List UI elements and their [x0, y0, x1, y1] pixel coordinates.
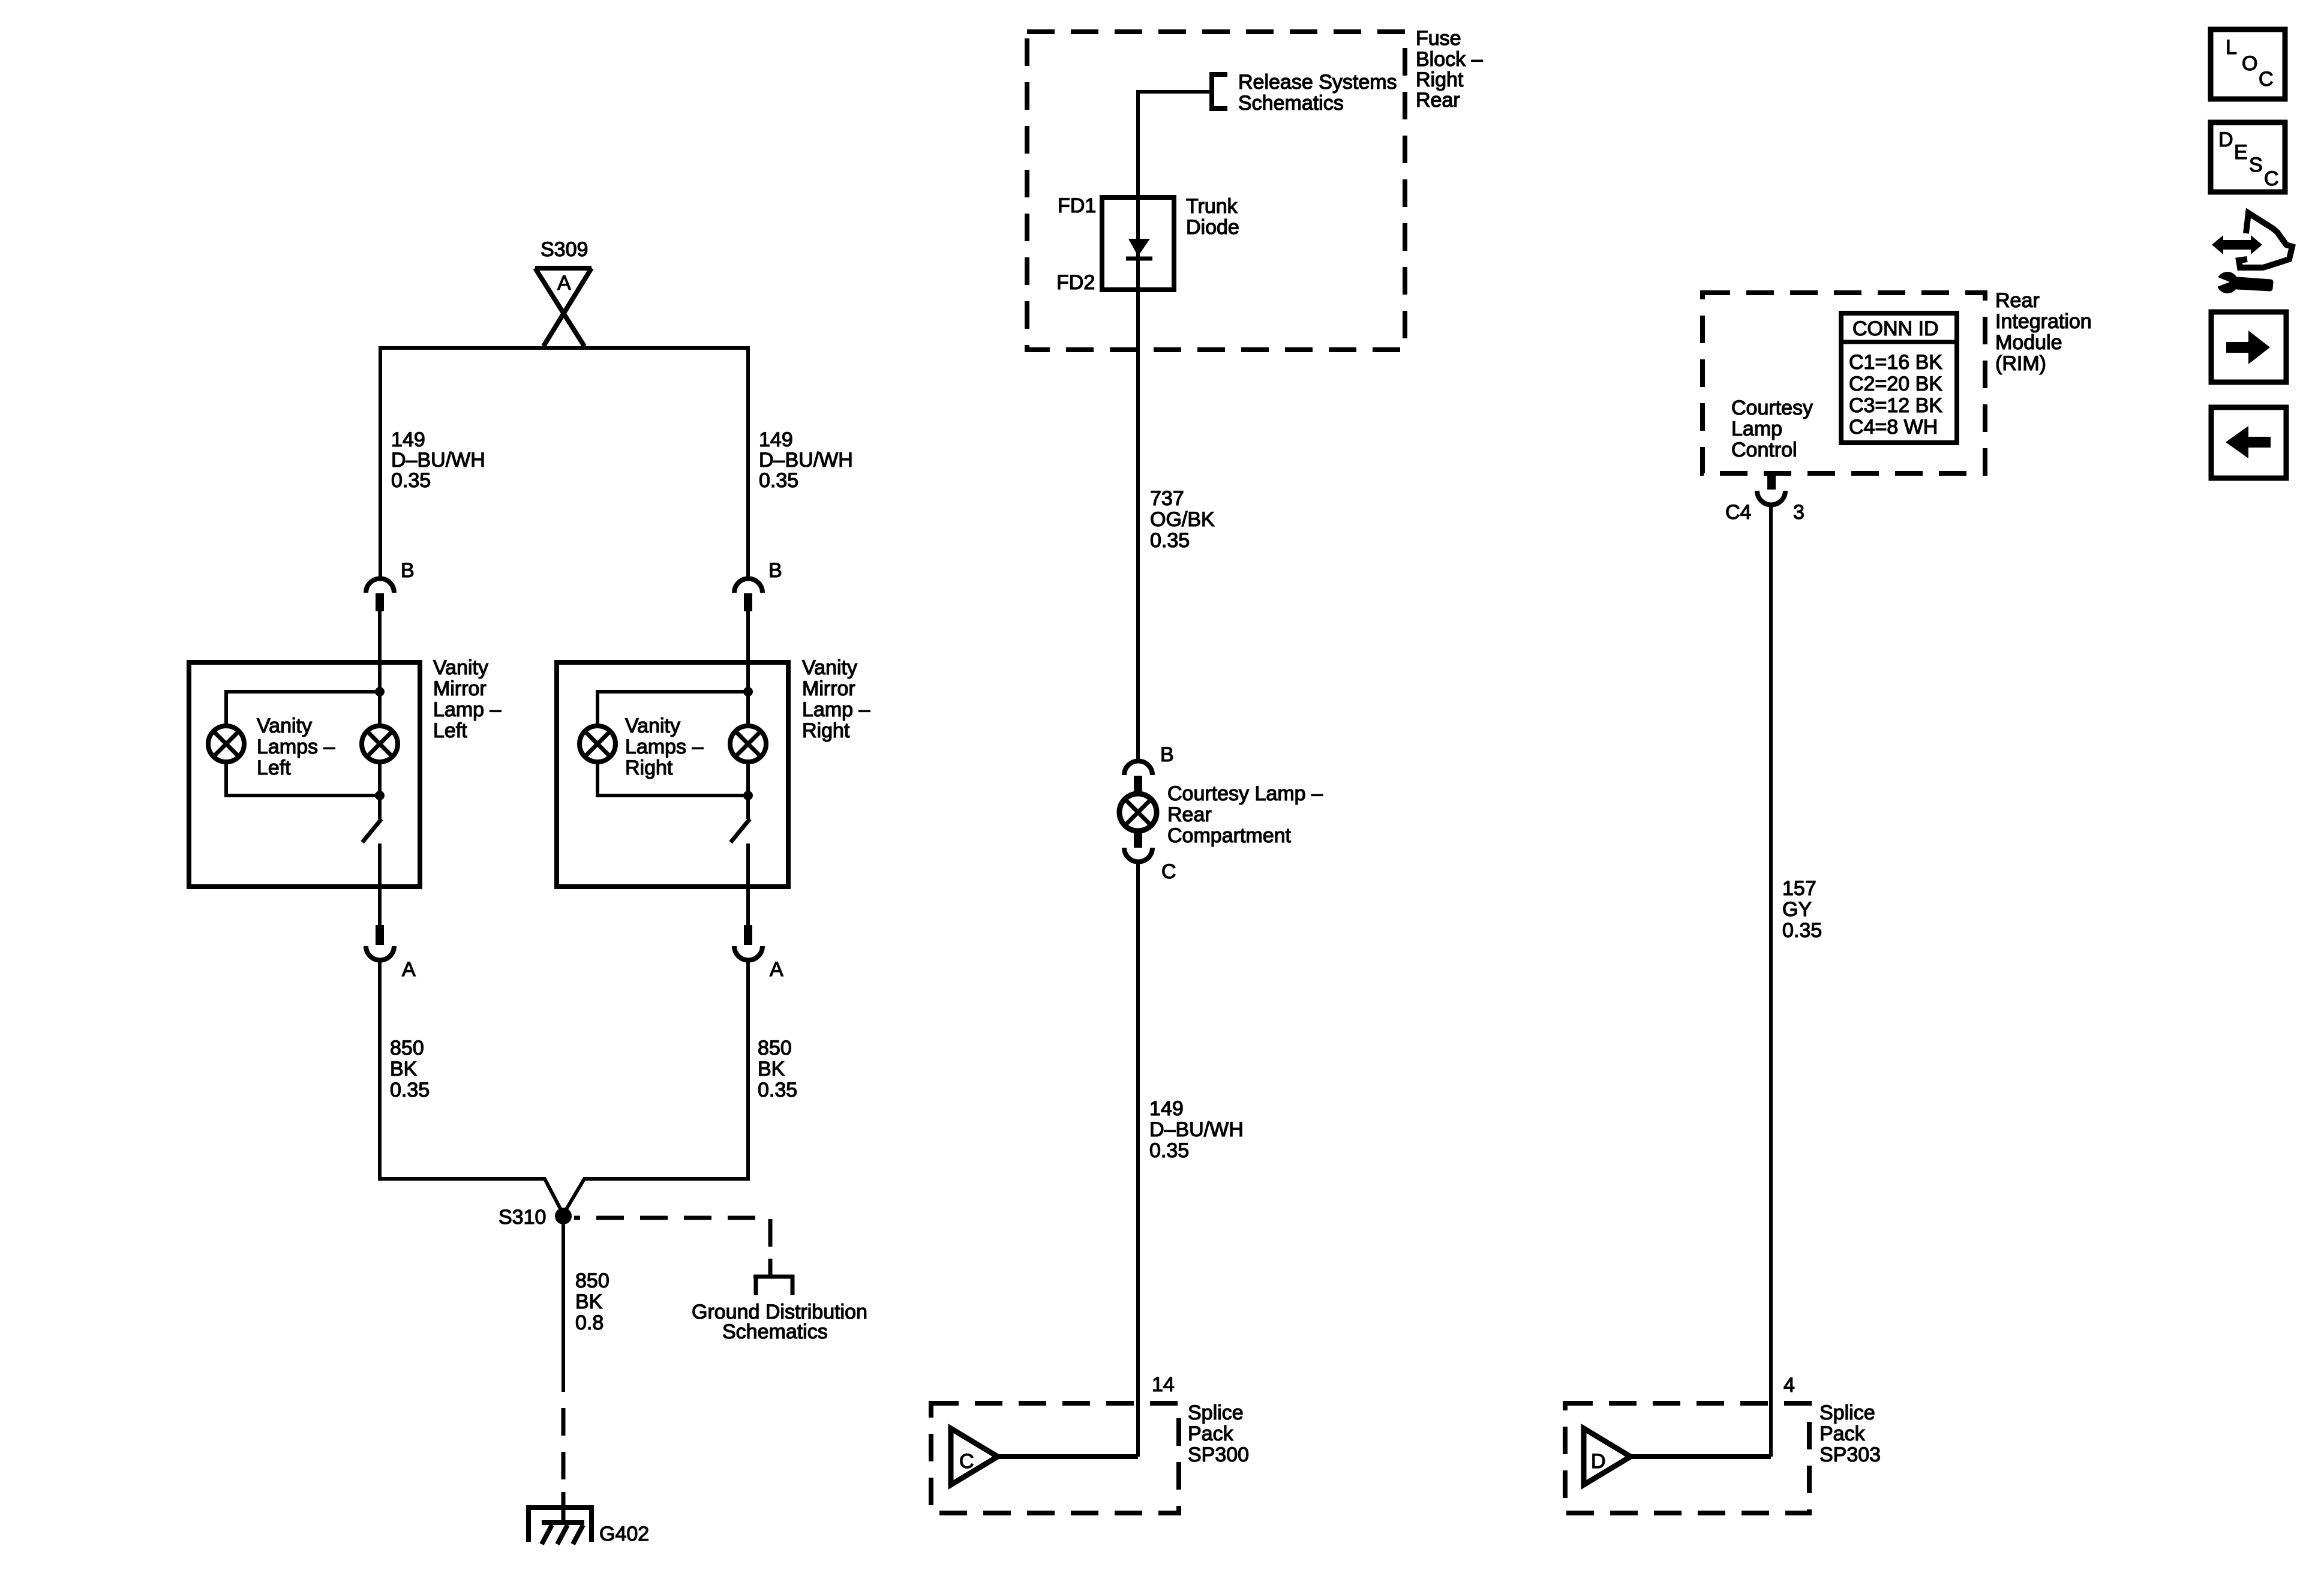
svg-text:Splice: Splice: [1819, 1401, 1875, 1424]
LOC icon letters: [2226, 36, 2274, 91]
svg-text:A: A: [557, 272, 571, 295]
label Ground Distribution Schematics: [692, 1301, 867, 1343]
wire: [226, 762, 380, 795]
svg-text:Lamps –: Lamps –: [625, 736, 703, 758]
inline connector A (right): [734, 925, 762, 960]
svg-text:Rear: Rear: [1416, 89, 1460, 112]
switch (right vanity): [731, 795, 750, 925]
svg-text:D–BU/WH: D–BU/WH: [759, 449, 853, 472]
svg-text:GY: GY: [1782, 898, 1812, 921]
wire from trunk diode down to courtesy lamp: [1136, 290, 1140, 761]
label Vanity Lamps Right: [625, 715, 703, 779]
svg-text:0.35: 0.35: [759, 469, 798, 492]
wire label 850 BK 0.35 (right): [758, 1037, 797, 1101]
lamp Vanity Lamps Right (bulb 1): [580, 726, 615, 762]
svg-text:Rear: Rear: [1167, 803, 1212, 826]
wire from release systems bracket to trunk diode: [1138, 92, 1209, 197]
label Fuse Block Right Rear: [1416, 27, 1483, 112]
label Vanity Mirror Lamp Left: [433, 656, 501, 742]
svg-text:C: C: [2264, 167, 2279, 190]
label Trunk Diode: [1186, 195, 1239, 239]
svg-text:Vanity: Vanity: [257, 715, 312, 737]
svg-text:OG/BK: OG/BK: [1150, 508, 1215, 531]
wire left branch down to S310: [380, 960, 563, 1214]
svg-text:Rear: Rear: [1995, 289, 2040, 312]
svg-text:Courtesy: Courtesy: [1731, 397, 1813, 419]
svg-text:C: C: [2259, 68, 2274, 91]
svg-text:E: E: [2234, 141, 2248, 164]
svg-text:149: 149: [391, 428, 425, 451]
wire label 149 D-BU/WH 0.35 (right): [759, 428, 853, 492]
wire to left lamp of right box: [597, 692, 748, 726]
svg-text:Lamp –: Lamp –: [433, 698, 501, 721]
svg-text:4: 4: [1783, 1374, 1795, 1397]
diode symbol: [1126, 239, 1152, 259]
forward arrow: [2226, 331, 2270, 364]
svg-text:B: B: [401, 559, 415, 582]
CONN ID table: [1841, 313, 1957, 443]
DESC icon box: [2211, 122, 2285, 192]
wire label 157 GY 0.35: [1782, 877, 1822, 942]
svg-text:Splice: Splice: [1188, 1401, 1244, 1424]
svg-text:Lamp –: Lamp –: [802, 698, 870, 721]
lamp Vanity Lamps Left (bulb 2): [362, 726, 398, 762]
dashed wire from S310 to ground distribution reference: [574, 1218, 770, 1259]
svg-text:3: 3: [1793, 501, 1804, 524]
wire to left lamp: [226, 692, 380, 726]
label Courtesy Lamp Control: [1731, 397, 1813, 461]
svg-text:0.35: 0.35: [391, 469, 431, 492]
node junction: [743, 791, 753, 800]
splice S310 junction dot: [555, 1208, 572, 1224]
label Rear Integration Module (RIM): [1995, 289, 2092, 375]
svg-text:Compartment: Compartment: [1167, 824, 1292, 847]
svg-text:0.35: 0.35: [1149, 1139, 1189, 1162]
node junction: [743, 687, 753, 697]
label Splice Pack SP303: [1819, 1401, 1881, 1466]
svg-text:S: S: [2249, 154, 2263, 176]
svg-text:157: 157: [1782, 877, 1816, 900]
svg-text:L: L: [2226, 36, 2237, 59]
svg-text:850: 850: [575, 1269, 609, 1292]
svg-text:C3=12 BK: C3=12 BK: [1849, 394, 1942, 417]
svg-text:S310: S310: [499, 1206, 546, 1229]
svg-text:Vanity: Vanity: [433, 656, 488, 679]
label Vanity Lamps Left: [257, 715, 335, 779]
svg-text:O: O: [2242, 52, 2257, 75]
svg-text:D–BU/WH: D–BU/WH: [1149, 1118, 1244, 1141]
svg-text:BK: BK: [575, 1290, 603, 1313]
lamp Courtesy Lamp Rear Compartment: [1119, 794, 1157, 831]
inline connector A (left): [366, 925, 394, 960]
inline connector B above courtesy lamp: [1124, 761, 1152, 793]
svg-text:SP303: SP303: [1819, 1443, 1881, 1466]
svg-text:C2=20 BK: C2=20 BK: [1849, 373, 1942, 395]
svg-text:850: 850: [758, 1037, 792, 1059]
dashed wire to ground G402: [562, 1392, 566, 1505]
inline connector C below courtesy lamp: [1124, 831, 1152, 862]
wire inside right box: [746, 662, 750, 795]
svg-text:14: 14: [1152, 1373, 1175, 1396]
fuse block right rear dashed box: [1027, 32, 1405, 350]
wire from courtesy lamp down to splice pack SP300: [1136, 862, 1140, 1457]
svg-text:Lamps –: Lamps –: [257, 736, 335, 758]
LOC icon box: [2211, 29, 2285, 99]
connector C4 pin 3 at RIM: [1757, 473, 1785, 505]
wire label 850 BK 0.8: [575, 1269, 609, 1334]
svg-text:149: 149: [759, 428, 793, 451]
svg-text:149: 149: [1149, 1097, 1184, 1120]
wire from S310 down: [562, 1224, 565, 1392]
svg-text:Release Systems: Release Systems: [1238, 71, 1397, 94]
svg-text:Lamp: Lamp: [1731, 418, 1782, 440]
wire label 850 BK 0.35 (left): [390, 1037, 430, 1101]
wire from triangle C to pin 14: [998, 1454, 1138, 1459]
svg-text:C4: C4: [1725, 501, 1751, 524]
vehicle service icon: part outline: [2239, 213, 2292, 268]
svg-text:S309: S309: [541, 238, 588, 261]
svg-text:D–BU/WH: D–BU/WH: [391, 449, 485, 472]
label Release Systems Schematics: [1238, 71, 1397, 115]
svg-text:D: D: [1591, 1450, 1606, 1473]
svg-text:SP300: SP300: [1188, 1443, 1249, 1466]
svg-text:Right: Right: [802, 719, 850, 742]
vanity mirror lamp left box: [189, 662, 420, 887]
svg-text:737: 737: [1150, 487, 1184, 510]
svg-text:Pack: Pack: [1819, 1422, 1866, 1445]
svg-text:G402: G402: [599, 1523, 649, 1545]
lamp Vanity Lamps Left (bulb 1): [208, 726, 244, 762]
svg-text:Block –: Block –: [1416, 48, 1483, 71]
vanity mirror lamp right box: [557, 662, 788, 887]
wire from triangle D to pin 4: [1631, 1454, 1771, 1459]
svg-text:C4=8 WH: C4=8 WH: [1849, 416, 1938, 439]
wire label 149 D-BU/WH 0.35 (middle): [1149, 1097, 1244, 1162]
svg-text:BK: BK: [390, 1058, 418, 1080]
svg-text:Diode: Diode: [1186, 216, 1239, 239]
wire right branch down to S310: [563, 960, 748, 1214]
svg-text:Left: Left: [257, 757, 291, 779]
svg-text:C: C: [1161, 860, 1176, 883]
svg-text:Mirror: Mirror: [433, 677, 487, 700]
DESC icon letters: [2218, 128, 2279, 190]
svg-text:FD2: FD2: [1056, 271, 1095, 294]
trunk diode box: [1102, 197, 1174, 290]
release systems schematics connector bracket: [1212, 74, 1227, 109]
svg-text:B: B: [768, 559, 782, 582]
svg-text:0.35: 0.35: [1782, 919, 1822, 942]
svg-text:Left: Left: [433, 719, 467, 742]
wire through diode box: [1136, 197, 1140, 290]
svg-text:Vanity: Vanity: [625, 715, 680, 737]
label Vanity Mirror Lamp Right: [802, 656, 870, 742]
svg-text:D: D: [2218, 128, 2233, 151]
splice triangle C: [951, 1428, 998, 1485]
svg-text:FD1: FD1: [1058, 194, 1096, 217]
svg-text:BK: BK: [758, 1058, 785, 1080]
svg-text:0.8: 0.8: [575, 1311, 603, 1334]
label Splice Pack SP300: [1188, 1401, 1249, 1466]
inline connector B (left): [366, 579, 394, 612]
svg-text:Right: Right: [1416, 68, 1464, 91]
node junction: [375, 791, 385, 800]
wire label 737 OG/BK 0.35: [1150, 487, 1215, 552]
vehicle service icon: double arrow: [2212, 235, 2262, 254]
svg-text:Module: Module: [1995, 331, 2062, 354]
svg-text:Mirror: Mirror: [802, 677, 855, 700]
svg-text:Integration: Integration: [1995, 310, 2092, 333]
svg-text:A: A: [402, 958, 416, 981]
wire: [378, 611, 382, 662]
CONN ID rows: [1849, 351, 1942, 439]
svg-text:(RIM): (RIM): [1995, 352, 2046, 375]
svg-text:B: B: [1160, 743, 1174, 766]
svg-text:Schematics: Schematics: [1238, 92, 1344, 115]
vehicle service icon: wrench: [2214, 272, 2271, 293]
svg-text:A: A: [770, 958, 783, 981]
svg-text:Trunk: Trunk: [1186, 195, 1238, 218]
wire label 149 D-BU/WH 0.35 (left): [391, 428, 485, 492]
svg-text:Courtesy Lamp –: Courtesy Lamp –: [1167, 782, 1323, 805]
rear integration module dashed box: [1703, 293, 1985, 473]
lamp Vanity Lamps Right (bulb 2): [730, 726, 766, 762]
svg-text:CONN ID: CONN ID: [1852, 317, 1939, 340]
ground G402 symbol: [529, 1492, 591, 1544]
off-page ground reference symbol: [753, 1259, 794, 1295]
back arrow: [2226, 426, 2271, 458]
wire: [746, 611, 750, 662]
svg-text:C: C: [959, 1450, 974, 1473]
forward arrow icon box: [2211, 312, 2286, 382]
back arrow icon box: [2211, 407, 2286, 478]
splice pack SP300 dashed box: [931, 1403, 1179, 1513]
wire: [597, 762, 748, 795]
splice pack SP303 dashed box: [1565, 1403, 1809, 1513]
node junction: [375, 687, 385, 697]
svg-text:C1=16 BK: C1=16 BK: [1849, 351, 1942, 374]
svg-text:850: 850: [390, 1037, 424, 1059]
switch (left vanity): [362, 795, 382, 925]
svg-text:0.35: 0.35: [758, 1079, 797, 1101]
wire from S309 to left and right branches: [380, 348, 748, 578]
svg-text:0.35: 0.35: [390, 1079, 430, 1101]
label Courtesy Lamp Rear Compartment: [1167, 782, 1323, 847]
svg-text:Control: Control: [1731, 439, 1797, 461]
inline connector B (right): [734, 579, 762, 612]
splice S309 symbol: [535, 268, 591, 346]
svg-text:Vanity: Vanity: [802, 656, 857, 679]
wire inside left box: [378, 662, 382, 795]
svg-text:Schematics: Schematics: [722, 1320, 828, 1343]
splice triangle D: [1584, 1428, 1631, 1485]
svg-text:Fuse: Fuse: [1416, 27, 1461, 50]
svg-text:0.35: 0.35: [1150, 529, 1190, 552]
svg-text:Pack: Pack: [1188, 1422, 1234, 1445]
wire from RIM down to splice pack SP303: [1769, 505, 1773, 1457]
svg-text:Right: Right: [625, 757, 673, 779]
